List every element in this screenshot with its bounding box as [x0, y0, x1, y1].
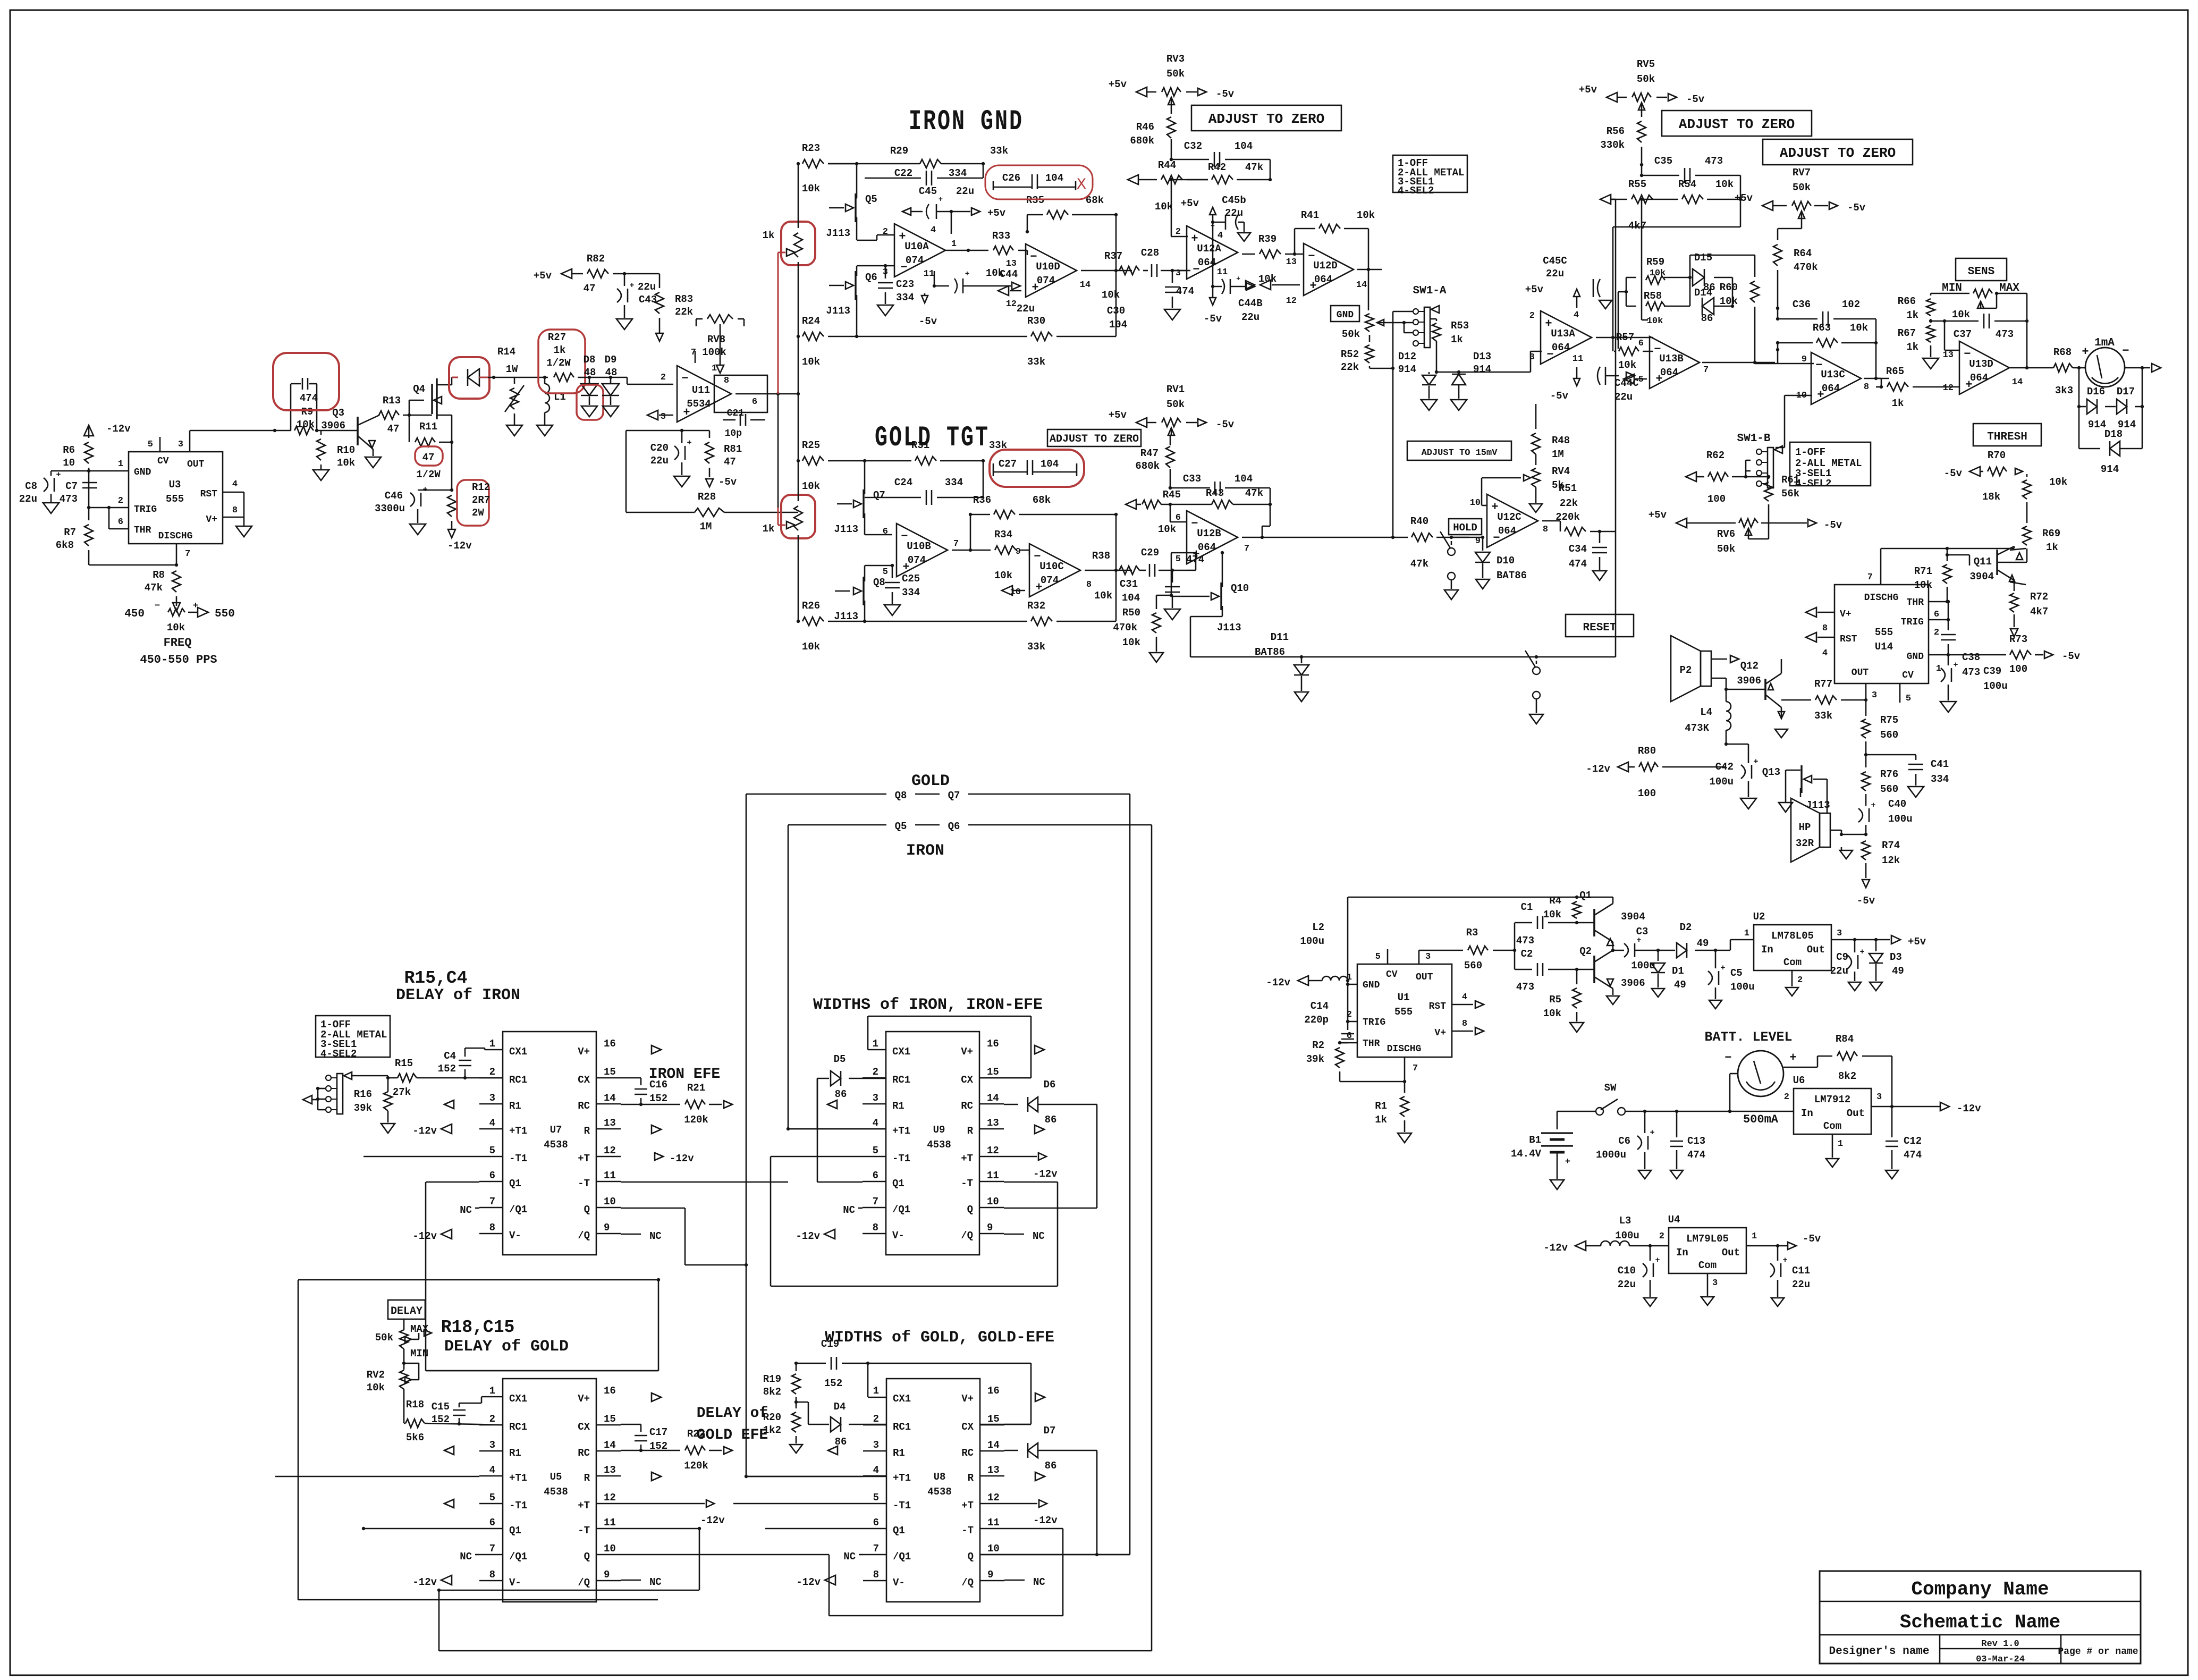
svg-text:+: +: [1782, 1256, 1787, 1265]
svg-text:22u: 22u: [1241, 311, 1259, 323]
wire R28 right: [724, 512, 798, 513]
svg-text:Q1: Q1: [1579, 890, 1592, 901]
switch HOLD: [1448, 548, 1455, 555]
svg-text:9: 9: [604, 1222, 610, 1234]
svg-text:1k2: 1k2: [763, 1424, 781, 1436]
svg-text:10k: 10k: [1258, 273, 1276, 285]
ground C10: [1644, 1298, 1656, 1306]
svg-text:22u: 22u: [1017, 303, 1035, 315]
svg-text:C43: C43: [639, 294, 657, 306]
wire C29-U12B pin5: [1187, 570, 1196, 571]
svg-text:2: 2: [1529, 311, 1535, 321]
wire Q13 gate: [1827, 779, 1828, 813]
svg-text:J113: J113: [826, 305, 850, 317]
svg-text:Out: Out: [1722, 1247, 1740, 1259]
svg-text:R24: R24: [802, 315, 820, 327]
diode D1: [1658, 950, 1659, 961]
red cap C26: [985, 165, 1093, 199]
svg-text:680k: 680k: [1135, 460, 1160, 472]
svg-text:+5v: +5v: [1181, 198, 1199, 209]
U9 pin4 wire: [788, 1128, 863, 1130]
svg-text:R69: R69: [2042, 528, 2060, 539]
svg-text:THR: THR: [1907, 597, 1924, 608]
svg-text:39k: 39k: [354, 1102, 372, 1114]
wire IRON left vert: [788, 825, 789, 1129]
capacitor C24: [865, 497, 921, 499]
ground D1: [1652, 989, 1664, 997]
svg-text:R84: R84: [1836, 1033, 1854, 1045]
label box HOLD: [1449, 519, 1482, 535]
wire P2-Q12: [1711, 678, 1726, 679]
svg-text:22k: 22k: [1560, 497, 1578, 509]
svg-text:GOLD EFE: GOLD EFE: [697, 1427, 768, 1443]
resistor R42: [1212, 175, 1233, 184]
svg-text:SW1-A: SW1-A: [1413, 285, 1446, 297]
svg-text:1k: 1k: [763, 523, 775, 535]
ground C43: [616, 319, 632, 330]
svg-text:Q: Q: [967, 1204, 973, 1215]
svg-text:39k: 39k: [1306, 1053, 1324, 1065]
svg-text:R56: R56: [1607, 125, 1625, 137]
svg-text:MIN: MIN: [410, 1348, 428, 1360]
resistor R61: [1764, 482, 1773, 501]
svg-text:C29: C29: [1141, 547, 1159, 559]
U7 pin8 rail: [441, 1229, 452, 1239]
svg-text:Com: Com: [1698, 1260, 1717, 1271]
switch selector SW-C: [337, 1074, 343, 1114]
U12B out: [1242, 537, 1301, 538]
U7 pin6 wire: [426, 1181, 479, 1183]
ground C13: [1670, 1170, 1683, 1179]
svg-text:TRIG: TRIG: [1363, 1017, 1385, 1028]
U5 pin9 NC: [621, 1580, 641, 1581]
svg-text:104: 104: [1235, 473, 1253, 485]
svg-text:334: 334: [896, 292, 914, 303]
wire R14-L1-R27: [514, 377, 548, 378]
wire MAX down: [2026, 293, 2028, 321]
U11 pin7 stub: [695, 351, 696, 363]
wire U11 out: [736, 393, 798, 395]
wire R45-U12B: [1170, 504, 1171, 522]
inductor L2: [1322, 976, 1348, 981]
wire U12B-R40: [1301, 537, 1408, 538]
wire IRON right vert: [1151, 825, 1153, 1651]
svg-text:100: 100: [1707, 493, 1726, 505]
svg-text:102: 102: [1842, 299, 1860, 310]
svg-text:8: 8: [1864, 382, 1869, 392]
wire R32 right: [1056, 621, 1116, 622]
svg-text:474: 474: [1687, 1149, 1705, 1161]
svg-text:L3: L3: [1619, 1215, 1631, 1227]
svg-text:4: 4: [1574, 310, 1579, 320]
U5 pin11 wire: [621, 1528, 699, 1530]
svg-text:3k3: 3k3: [2055, 385, 2073, 396]
svg-text:86: 86: [1045, 1460, 1057, 1472]
svg-text:914: 914: [1398, 364, 1416, 375]
wire R69-Q11: [2026, 548, 2028, 562]
resistor R66: [1930, 293, 1932, 296]
svg-text:R63: R63: [1813, 322, 1831, 334]
svg-text:10: 10: [1010, 587, 1021, 597]
wire D12-U13A: [1436, 372, 1531, 373]
U13C out: [1864, 378, 1876, 379]
resistor R4: [1573, 901, 1581, 918]
svg-text:+: +: [56, 470, 61, 479]
svg-text:+T1: +T1: [892, 1125, 910, 1137]
svg-text:U12D: U12D: [1313, 260, 1338, 272]
svg-text:1: 1: [873, 1038, 878, 1050]
U1 pin3: [1418, 950, 1420, 964]
resistor R43: [1212, 500, 1233, 509]
svg-text:16: 16: [604, 1385, 616, 1397]
svg-text:11: 11: [924, 269, 934, 279]
resistor R12: [447, 495, 456, 517]
pot 1k GOLD: [794, 506, 802, 530]
svg-text:104: 104: [1045, 172, 1063, 184]
svg-text:-12v: -12v: [447, 540, 472, 552]
svg-text:+5v: +5v: [1109, 409, 1127, 421]
svg-text:064: 064: [1822, 383, 1840, 394]
svg-text:P2: P2: [1680, 664, 1692, 676]
resistor R27: [554, 373, 574, 382]
svg-text:7: 7: [953, 539, 959, 549]
resistor R60: [1751, 281, 1759, 302]
capacitor C19: [796, 1363, 826, 1364]
svg-text:GND: GND: [1337, 310, 1354, 320]
svg-text:13: 13: [1943, 350, 1954, 360]
svg-text:13: 13: [1286, 257, 1297, 267]
U13B out: [1702, 362, 1755, 364]
svg-text:C36: C36: [1793, 299, 1811, 310]
U11 comp box: [714, 375, 767, 412]
svg-text:5: 5: [148, 440, 153, 450]
svg-text:IRON: IRON: [906, 842, 944, 860]
svg-text:152: 152: [438, 1063, 456, 1075]
wire D9-U11: [627, 377, 628, 384]
svg-text:RV1: RV1: [1166, 384, 1185, 395]
svg-text:2W: 2W: [472, 507, 484, 519]
svg-text:Q1: Q1: [509, 1178, 521, 1189]
ground U3 V+: [236, 526, 252, 537]
svg-text:10k: 10k: [1158, 524, 1176, 535]
svg-text:TRIG: TRIG: [1901, 617, 1924, 628]
svg-text:914: 914: [1473, 364, 1491, 375]
svg-text:+: +: [1859, 948, 1864, 957]
svg-text:Designer's name: Designer's name: [1829, 1645, 1929, 1658]
svg-text:C14: C14: [1311, 1000, 1329, 1012]
U9 pin1 hook: [868, 1049, 886, 1051]
svg-text:22u: 22u: [1830, 965, 1848, 977]
ground R1: [1398, 1133, 1411, 1143]
svg-text:9: 9: [987, 1222, 993, 1234]
svg-text:47k: 47k: [145, 582, 163, 594]
capacitor C20: [684, 446, 686, 460]
wire U11 under: [682, 430, 709, 432]
svg-text:2: 2: [489, 1066, 495, 1078]
svg-text:Q: Q: [584, 1204, 590, 1215]
IC U3 555 box: [129, 452, 223, 544]
wire Q4 gate: [409, 400, 410, 415]
resistor R62: [1686, 472, 1696, 482]
resistor R57: [1619, 347, 1639, 356]
svg-text:+: +: [1650, 1128, 1654, 1137]
svg-text:RC1: RC1: [509, 1421, 527, 1433]
svg-text:100u: 100u: [1983, 680, 2008, 692]
svg-text:RC1: RC1: [509, 1074, 527, 1086]
svg-text:-12v: -12v: [670, 1153, 694, 1164]
U8 pin12 rail: [1004, 1503, 1037, 1505]
U3 pin1 wire: [51, 470, 129, 472]
svg-text:/Q1: /Q1: [893, 1551, 911, 1563]
svg-text:4: 4: [232, 479, 238, 489]
svg-text:U7: U7: [550, 1124, 562, 1136]
svg-text:DISCHG: DISCHG: [1864, 593, 1899, 603]
pot RV8 100k: [707, 315, 733, 323]
svg-text:+: +: [1871, 801, 1875, 810]
svg-text:18k: 18k: [1982, 491, 2000, 503]
svg-text:R64: R64: [1794, 248, 1812, 259]
svg-text:U14: U14: [1875, 641, 1893, 653]
wire R53-D12: [1436, 372, 1438, 373]
svg-text:14: 14: [604, 1439, 616, 1451]
diode D5: [817, 1078, 829, 1079]
svg-text:12: 12: [987, 1492, 1000, 1504]
resistor R44: [1128, 175, 1138, 184]
svg-text:10k: 10k: [1850, 322, 1868, 334]
svg-text:914: 914: [2101, 463, 2119, 475]
svg-text:+5v: +5v: [987, 207, 1006, 219]
svg-text:9: 9: [987, 1569, 993, 1581]
svg-text:11: 11: [604, 1170, 616, 1181]
U9 pin15 hook: [1004, 1077, 1031, 1079]
diode D3: [1875, 940, 1877, 951]
svg-text:MAX: MAX: [1999, 282, 2019, 294]
svg-text:22u: 22u: [650, 455, 669, 467]
svg-text:C45b: C45b: [1222, 195, 1246, 206]
svg-text:WIDTHS of IRON, IRON-EFE: WIDTHS of IRON, IRON-EFE: [813, 996, 1043, 1014]
svg-text:14: 14: [1080, 280, 1090, 290]
resistor R64: [1773, 244, 1782, 266]
svg-text:8: 8: [1822, 623, 1828, 634]
diode D12: [1428, 372, 1430, 374]
svg-text:12: 12: [987, 1145, 999, 1156]
op-amp U13A 064: [1541, 311, 1592, 364]
svg-text:R66: R66: [1898, 296, 1916, 307]
wire SW-U6: [1625, 1111, 1794, 1112]
svg-text:1M: 1M: [1552, 449, 1564, 460]
svg-text:10k: 10k: [1720, 296, 1738, 307]
label box ADJUST TO ZERO 3: [1763, 139, 1913, 165]
svg-text:13: 13: [987, 1117, 999, 1129]
svg-text:+: +: [1655, 1256, 1660, 1265]
svg-text:OUT: OUT: [1852, 668, 1869, 678]
svg-text:SENS: SENS: [1968, 266, 1994, 278]
svg-text:10: 10: [63, 457, 75, 469]
svg-text:R35: R35: [1026, 195, 1044, 206]
svg-text:-12v: -12v: [796, 1576, 821, 1588]
U5 pin6 wire: [363, 1528, 479, 1530]
resistor R24: [802, 332, 824, 341]
svg-text:D6: D6: [1044, 1079, 1056, 1091]
svg-text:+: +: [1236, 275, 1240, 283]
resistor R13: [379, 411, 399, 419]
capacitor C32: [1171, 159, 1209, 161]
svg-text:100: 100: [2009, 663, 2027, 675]
label box selector SW1B: [1790, 442, 1871, 486]
svg-text:CX: CX: [578, 1074, 590, 1086]
U7 pin11 wire: [621, 1181, 788, 1183]
svg-text:Q2: Q2: [1579, 945, 1592, 957]
svg-text:33k: 33k: [1027, 641, 1045, 653]
svg-text:-5v: -5v: [1550, 390, 1569, 402]
wire D5-U9pin2: [863, 1078, 886, 1079]
svg-text:RC1: RC1: [893, 1421, 911, 1433]
svg-text:D18: D18: [2104, 428, 2123, 440]
svg-text:Rev 1.0: Rev 1.0: [1981, 1639, 2019, 1649]
svg-text:Q6: Q6: [948, 821, 960, 832]
wire R71 top: [1947, 548, 1948, 561]
wire R30 right: [1056, 336, 1116, 337]
wire out-R54: [1612, 227, 1614, 337]
svg-text:R1: R1: [509, 1447, 521, 1459]
resistor R72: [2014, 580, 2015, 591]
svg-text:10k: 10k: [802, 356, 820, 368]
svg-text:3: 3: [178, 440, 183, 450]
svg-text:22u: 22u: [19, 493, 37, 505]
svg-text:D5: D5: [834, 1053, 846, 1065]
svg-text:4k7: 4k7: [1628, 220, 1646, 232]
svg-text:4k7: 4k7: [2030, 606, 2048, 618]
U5 pin5 term: [444, 1499, 454, 1508]
svg-text:LM79L05: LM79L05: [1686, 1233, 1729, 1245]
svg-text:R75: R75: [1880, 714, 1898, 726]
svg-text:R52: R52: [1341, 349, 1359, 360]
svg-text:+: +: [1211, 222, 1215, 230]
U1 pin5: [1387, 949, 1389, 964]
svg-text:R18: R18: [406, 1399, 424, 1411]
IC U7 4538: [503, 1032, 596, 1255]
svg-text:1: 1: [1936, 664, 1941, 674]
svg-text:100u: 100u: [1709, 776, 1734, 788]
svg-text:U10B: U10B: [907, 541, 931, 552]
svg-text:-5v: -5v: [1847, 202, 1866, 214]
U8 pin16 term: [1035, 1393, 1045, 1402]
selector wires: [303, 1095, 312, 1104]
svg-text:V-: V-: [892, 1230, 904, 1242]
svg-text:CV: CV: [1902, 670, 1914, 681]
svg-text:V+: V+: [578, 1046, 590, 1058]
U14 pin4: [1817, 637, 1835, 638]
svg-text:7: 7: [1703, 365, 1709, 375]
transistor Q1 3904: [1593, 909, 1595, 936]
svg-text:474: 474: [1904, 1149, 1922, 1161]
pot 1k IRON: [794, 233, 802, 257]
svg-text:C44B: C44B: [1238, 298, 1263, 309]
capacitor C36: [1777, 308, 1779, 319]
svg-text:SW1-B: SW1-B: [1737, 433, 1770, 445]
red box pot IRON: [781, 222, 815, 265]
svg-text:100u: 100u: [1888, 813, 1913, 825]
svg-text:473: 473: [1962, 666, 1980, 678]
svg-text:1/2W: 1/2W: [546, 357, 571, 369]
svg-text:3: 3: [1872, 690, 1877, 700]
resistor R63: [1816, 339, 1838, 347]
svg-text:-T1: -T1: [509, 1500, 527, 1512]
svg-text:47: 47: [422, 452, 435, 463]
svg-text:8: 8: [873, 1222, 878, 1234]
svg-text:-5v: -5v: [2062, 651, 2081, 662]
svg-text:D2: D2: [1680, 922, 1692, 933]
U7 pin13 term: [652, 1125, 661, 1134]
svg-text:R76: R76: [1880, 769, 1898, 780]
svg-text:R3: R3: [1466, 927, 1478, 939]
svg-text:47: 47: [387, 423, 400, 435]
svg-text:R4: R4: [1549, 895, 1561, 907]
svg-text:22u: 22u: [638, 281, 656, 293]
svg-text:12: 12: [604, 1492, 616, 1504]
svg-text:U10D: U10D: [1036, 261, 1060, 273]
svg-text:Q11: Q11: [1974, 556, 1992, 568]
U9 pin13 term: [1035, 1125, 1044, 1134]
label box ADJUST TO ZERO 4: [1047, 429, 1141, 446]
battery B1: [1541, 1132, 1573, 1134]
svg-text:C7: C7: [65, 480, 78, 492]
svg-text:R31: R31: [911, 440, 929, 451]
svg-text:C3: C3: [1636, 926, 1648, 938]
resistor R81: [705, 442, 714, 463]
svg-text:470k: 470k: [1113, 622, 1137, 634]
svg-text:5: 5: [873, 1145, 878, 1156]
wire sel-R15: [351, 1075, 388, 1077]
svg-text:R58: R58: [1644, 290, 1662, 302]
svg-text:MIN: MIN: [1942, 282, 1962, 294]
U10C out: [1085, 570, 1132, 571]
svg-text:Q4: Q4: [413, 383, 425, 395]
ground Q3: [373, 449, 374, 456]
svg-text:8: 8: [489, 1222, 495, 1234]
svg-text:5: 5: [1638, 375, 1644, 385]
svg-text:R: R: [968, 1472, 974, 1484]
svg-text:D1: D1: [1672, 965, 1684, 977]
svg-text:R37: R37: [1104, 250, 1122, 262]
wire bottom left vert: [438, 1590, 440, 1651]
svg-text:Q12: Q12: [1740, 660, 1759, 672]
op-amp U10D 074: [1026, 244, 1077, 297]
capacitor C9: [1854, 940, 1856, 952]
svg-text:6: 6: [873, 1517, 879, 1529]
svg-text:J113: J113: [826, 227, 850, 239]
resistor R38: [1119, 566, 1139, 575]
wire C34-up: [1615, 199, 1617, 531]
svg-text:+5v: +5v: [1735, 192, 1753, 204]
ground R14: [506, 425, 522, 436]
red box R27: [538, 330, 585, 393]
capacitor C31: [1172, 570, 1173, 582]
U12A pin11 C44B: [1212, 273, 1214, 298]
U3 pin3: [189, 430, 191, 452]
svg-text:10k: 10k: [1543, 1008, 1561, 1019]
wire R24-R30: [828, 336, 1027, 337]
svg-text:+5v: +5v: [1579, 84, 1597, 96]
svg-text:450: 450: [124, 608, 145, 620]
svg-text:1000u: 1000u: [1596, 1149, 1626, 1161]
svg-text:14: 14: [2012, 377, 2023, 387]
svg-text:C46: C46: [385, 490, 403, 502]
capacitor C28: [1143, 270, 1148, 272]
svg-text:CX: CX: [961, 1074, 973, 1086]
svg-text:R19: R19: [763, 1373, 781, 1385]
svg-text:C34: C34: [1569, 543, 1587, 555]
